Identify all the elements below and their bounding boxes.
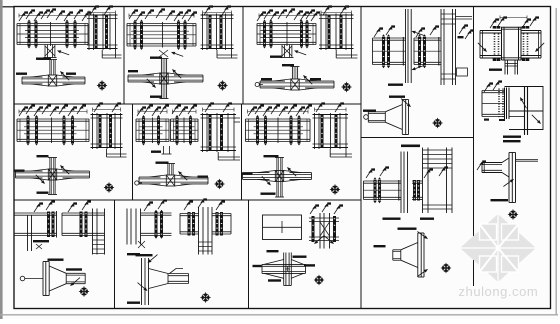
svg-text:zhulong.com: zhulong.com [459, 284, 539, 299]
